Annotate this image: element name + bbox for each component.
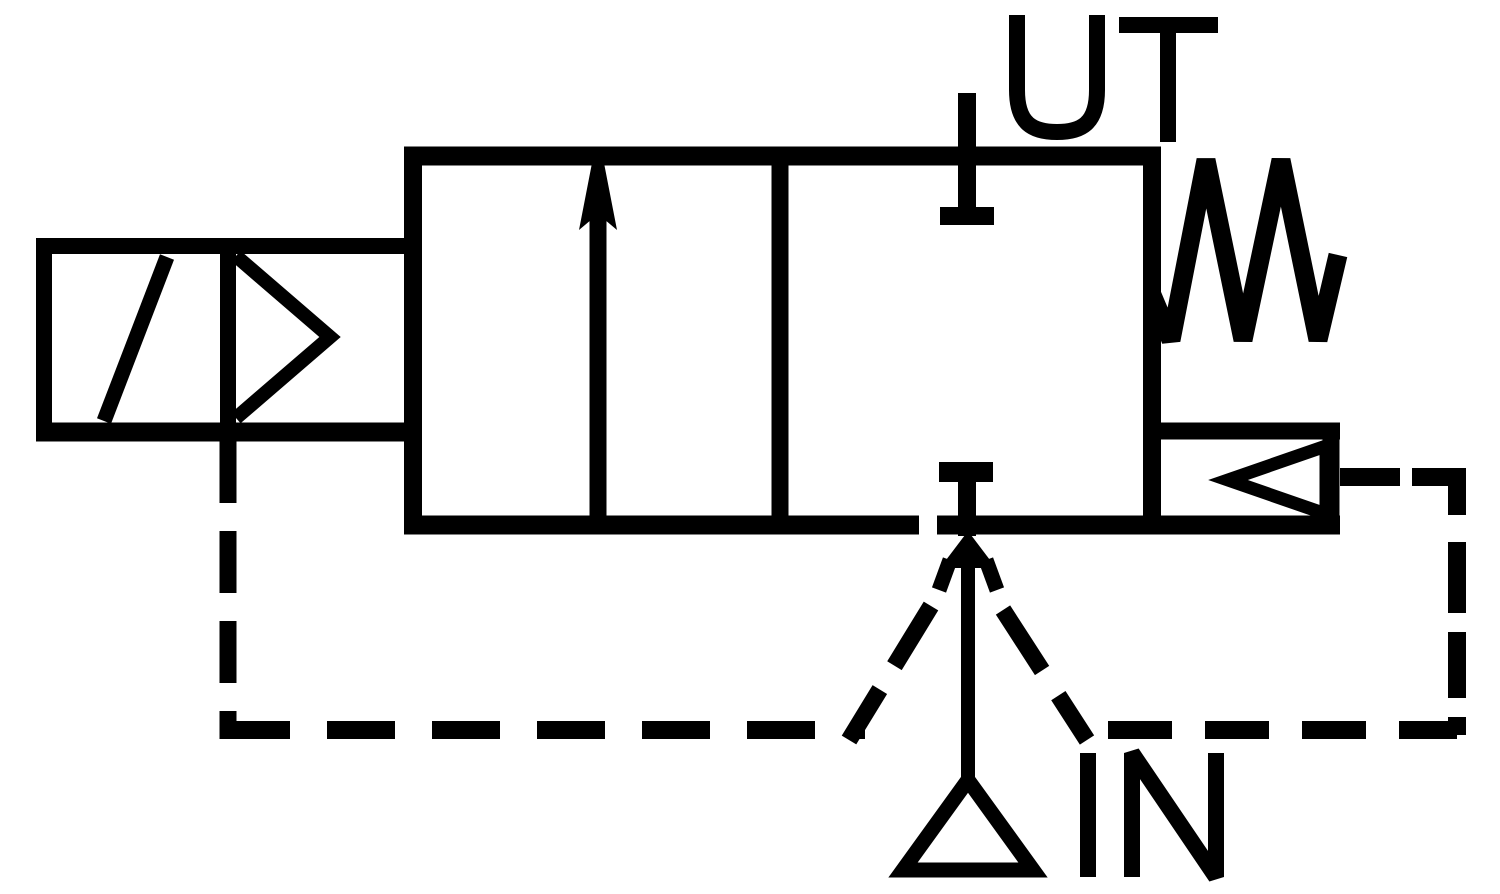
- top port stem (UT): [958, 93, 976, 222]
- valve body top edge: [404, 147, 1161, 166]
- supply line (IN): [961, 545, 975, 782]
- solenoid slash: [104, 257, 167, 421]
- bottom blocked-port crossbar: [939, 462, 993, 482]
- valve position divider: [772, 147, 789, 525]
- flow arrowhead (left cell, points up): [579, 163, 617, 230]
- pilot dashed line: stub from pilot check to riser: [1340, 468, 1466, 486]
- pilot dashed line: right vertical riser: [1448, 468, 1466, 735]
- pilot box right edge: [1323, 423, 1340, 534]
- pilot box top edge: [1152, 423, 1340, 440]
- solenoid pilot triangle: [236, 256, 330, 418]
- pilot check triangle (points left): [1228, 446, 1326, 514]
- label IN letter N: [1132, 753, 1216, 877]
- supply arrowhead left barb: [939, 560, 950, 590]
- valve body right edge: [1143, 147, 1161, 534]
- solenoid box bottom edge (heavier): [36, 423, 421, 442]
- label UT letter U: [1017, 15, 1097, 132]
- valve body left edge: [404, 147, 422, 534]
- top blocked-port crossbar: [940, 207, 994, 225]
- flow path arrow line (left cell): [590, 176, 607, 518]
- valve body bottom edge (right part, extends under pilot box): [937, 516, 1340, 535]
- pilot dashed line: bottom horizontal right run: [1108, 721, 1457, 739]
- pressure source triangle (IN): [903, 780, 1033, 870]
- pilot dashed line: right diagonal down from supply port: [1003, 610, 1087, 740]
- supply arrowhead right barb: [986, 560, 997, 590]
- pilot dashed line: bottom horizontal left run: [222, 721, 865, 739]
- label IN letter I: [1080, 753, 1096, 877]
- label UT letter T: [1119, 25, 1218, 142]
- pilot dashed line: left diagonal up to supply port: [849, 606, 931, 740]
- bottom port stem: [958, 464, 976, 536]
- solenoid box: [44, 246, 413, 432]
- supply arrowhead (points up into bottom port): [940, 531, 996, 568]
- return spring: [1152, 160, 1338, 340]
- pilot dashed line: left vertical drop from solenoid: [220, 441, 237, 739]
- valve body bottom edge (left part, with gap before port stem): [404, 516, 919, 535]
- solenoid divider: [220, 246, 236, 432]
